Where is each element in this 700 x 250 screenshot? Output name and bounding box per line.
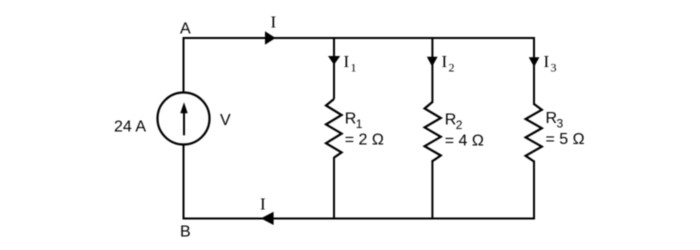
svg-text:R: R	[345, 111, 357, 128]
label: R1	[345, 111, 363, 132]
resistor R2 zigzag	[425, 102, 441, 161]
svg-text:1: 1	[356, 117, 363, 131]
arrow: current I3 (pointing down)	[529, 57, 540, 67]
svg-text:= 5 Ω: = 5 Ω	[546, 131, 585, 148]
svg-text:= 2 Ω: = 2 Ω	[345, 132, 384, 149]
svg-text:I: I	[260, 195, 266, 214]
label: V (source voltage)	[220, 112, 231, 129]
svg-text:2: 2	[456, 118, 463, 132]
wire: left rail upper segment (node A down to current source top)	[183, 37, 185, 93]
wire: branch 2 lower lead	[431, 160, 433, 219]
arrow: current I on top rail (pointing right)	[265, 31, 276, 45]
node A label	[180, 21, 191, 38]
label: R3	[546, 110, 564, 131]
label: R3 value = 5 ohm	[546, 131, 585, 148]
wire: top rail from node A to top-right corner	[183, 37, 536, 39]
svg-text:V: V	[220, 112, 231, 129]
svg-text:I: I	[344, 52, 350, 71]
label: I3	[544, 52, 557, 75]
arrow: current I2 (pointing down)	[427, 57, 438, 67]
label: R1 value = 2 ohm	[345, 132, 384, 149]
wire: branch 1 upper lead	[333, 37, 335, 99]
resistor R1 zigzag	[326, 99, 342, 158]
arrow: current I on bottom rail (pointing left)	[261, 212, 274, 225]
svg-text:3: 3	[557, 116, 564, 130]
current source CS1 circle	[158, 93, 210, 145]
label: R2	[445, 111, 463, 132]
label: I (bottom current)	[260, 195, 266, 214]
current source CS1 internal arrow (pointing up)	[180, 102, 187, 135]
svg-text:I: I	[271, 13, 277, 32]
svg-text:= 4 Ω: = 4 Ω	[445, 132, 484, 149]
wire: bottom rail from node B to bottom-right corner	[183, 218, 536, 220]
svg-text:A: A	[180, 21, 191, 38]
resistor R3 zigzag	[526, 104, 542, 162]
svg-text:I: I	[544, 52, 550, 71]
wire: branch 2 upper lead	[431, 37, 433, 103]
svg-text:1: 1	[351, 61, 357, 75]
wire: branch 1 lower lead	[333, 157, 335, 219]
svg-text:3: 3	[551, 61, 557, 75]
label: I (top current)	[271, 13, 277, 32]
label: R2 value = 4 ohm	[445, 132, 484, 149]
node B label	[180, 223, 191, 240]
svg-text:I: I	[442, 52, 448, 71]
arrow: current I1 (pointing down)	[328, 56, 340, 65]
svg-text:2: 2	[449, 61, 455, 75]
svg-text:R: R	[546, 110, 558, 127]
svg-text:R: R	[445, 111, 457, 128]
wire: left rail lower segment (current source bottom down to node B)	[183, 144, 185, 219]
wire: branch 3 upper lead (right rail top)	[533, 37, 535, 105]
label: I1	[344, 52, 357, 75]
svg-text:24 A: 24 A	[114, 119, 146, 136]
label: 24 A (source value)	[114, 119, 146, 136]
label: I2	[442, 52, 455, 75]
wire: branch 3 lower lead (right rail bottom)	[533, 161, 535, 220]
svg-text:B: B	[180, 223, 191, 240]
